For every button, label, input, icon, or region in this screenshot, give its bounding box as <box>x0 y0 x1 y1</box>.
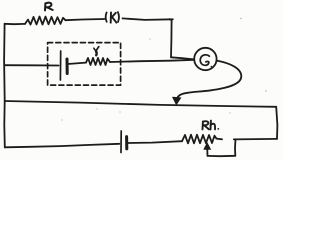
wire middle-left to cell <box>5 64 59 66</box>
wire cell to internal resistance r <box>68 63 86 64</box>
wire wiper base horizontal <box>208 155 236 157</box>
battery B (short plate) <box>125 137 128 149</box>
arrow head onto middle wire <box>173 97 181 104</box>
key K <box>106 12 119 23</box>
galvanometer G <box>194 48 216 70</box>
wire curved from G to middle wire <box>176 61 241 102</box>
wire resistor R to key K <box>66 19 105 20</box>
wire to galvanometer <box>171 57 194 59</box>
wire step from right vertical to wiper <box>234 138 277 141</box>
label R <box>45 3 53 11</box>
cell E (long plate) <box>59 51 61 80</box>
rheostat Rh <box>182 135 217 144</box>
battery B (long plate) <box>120 131 122 153</box>
cell E (short plate) <box>66 59 69 74</box>
wire bottom-left to battery <box>5 144 120 148</box>
wire battery to rheostat <box>128 141 182 143</box>
wire internal resistance r to G <box>110 60 194 62</box>
wire right vertical (top) <box>170 19 172 57</box>
internal resistance r <box>86 58 110 65</box>
wire left vertical <box>3 24 6 148</box>
wire rheostat stub end <box>217 138 223 141</box>
label r <box>94 47 99 56</box>
wire right vertical (bottom loop) <box>276 107 277 139</box>
rheostat wiper arrow <box>204 143 211 156</box>
wire step vertical <box>234 139 237 156</box>
resistor R <box>25 17 66 25</box>
label Rh. <box>203 121 220 130</box>
wire top-left to resistor R <box>5 23 25 25</box>
wire middle horizontal (node line) <box>5 101 277 107</box>
wire key K to top-right corner <box>123 18 173 20</box>
dashed box (cell boundary) <box>48 43 121 86</box>
